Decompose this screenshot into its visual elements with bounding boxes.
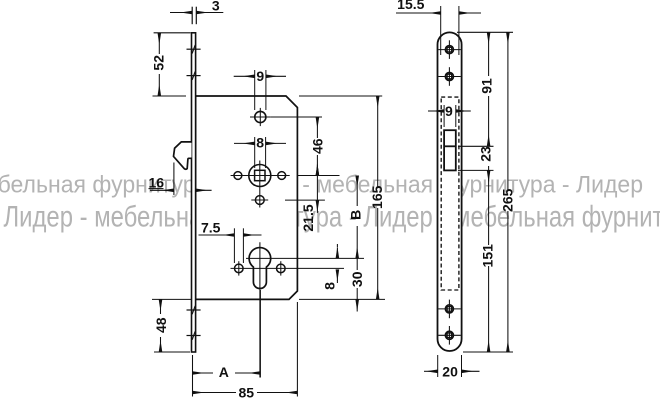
- ext line hole right: [271, 116, 322, 118]
- cyl satellite right crosshair: [280, 261, 282, 275]
- dim 265 line: [507, 33, 509, 190]
- latch hook: [174, 142, 192, 169]
- dim 48 line: [160, 300, 162, 314]
- dim 9 face ext lines: [443, 105, 445, 127]
- svg-text:265: 265: [499, 188, 515, 212]
- cyl satellite left: [235, 264, 244, 273]
- plate break mark 2: [187, 71, 201, 80]
- dim 52: extension lines: [154, 32, 191, 34]
- dim 3 arrows: [170, 12, 192, 14]
- svg-text:8: 8: [322, 282, 338, 290]
- top hole: [255, 111, 266, 122]
- top hole crosshair: [259, 108, 261, 126]
- svg-text:16: 16: [149, 174, 165, 190]
- hub satellite right: [278, 172, 286, 180]
- svg-text:B: B: [348, 210, 364, 220]
- dim 8 bottom line: [336, 244, 338, 247]
- svg-text:15.5: 15.5: [397, 0, 424, 12]
- plate break mark 1: [187, 45, 201, 54]
- svg-text:165: 165: [369, 185, 385, 209]
- dim 7.5 extension lines: [233, 228, 235, 263]
- dashed case rect: [441, 97, 459, 290]
- screw 1: [438, 40, 461, 59]
- dim 9 arrows: [234, 75, 255, 77]
- dim 9 face arrows: [428, 110, 444, 112]
- svg-text:7.5: 7.5: [201, 220, 221, 236]
- dim 20 ext lines: [437, 355, 439, 377]
- dim 8 arrows: [234, 142, 255, 144]
- right view ext lines: [457, 31, 513, 33]
- hub satellite bottom: [255, 196, 264, 205]
- dim 20 arrows: [424, 370, 438, 372]
- ext line case bottom: [152, 298, 191, 300]
- screw 2: [438, 67, 461, 86]
- hub crosshair vertical: [259, 161, 261, 208]
- dim 85 line: [193, 392, 236, 394]
- ext line bottom satellite right: [285, 199, 325, 201]
- cyl satellite right: [277, 264, 286, 273]
- faceplate front: [438, 32, 462, 351]
- latch divider: [444, 145, 456, 147]
- ext line hub right: [298, 175, 340, 177]
- dim 52 line: [158, 33, 160, 54]
- faceplate side view: [192, 33, 196, 352]
- dim 3: extension ticks: [191, 7, 193, 25]
- svg-text:9: 9: [445, 103, 453, 119]
- ext line case top right: [299, 95, 382, 97]
- svg-text:48: 48: [153, 317, 169, 333]
- svg-text:A: A: [219, 364, 229, 380]
- svg-text:151: 151: [480, 244, 496, 268]
- dim 15.5 ext lines: [440, 6, 442, 55]
- svg-text:8: 8: [256, 135, 264, 151]
- dim 8 top: extension lines: [254, 137, 256, 168]
- dim 15.5 arrows: [396, 12, 441, 14]
- cyl satellite left crosshair: [238, 261, 240, 275]
- dim 21.5 line: [316, 176, 318, 200]
- dim 30 line: [356, 258, 358, 270]
- dim B line: [356, 176, 358, 206]
- svg-text:85: 85: [239, 385, 255, 400]
- screw 4: [438, 326, 461, 345]
- plate break mark 4: [187, 331, 201, 340]
- svg-text:30: 30: [349, 271, 365, 287]
- screw 3: [438, 300, 461, 319]
- svg-text:52: 52: [151, 55, 167, 71]
- dim 9 top: extension lines: [254, 70, 256, 110]
- dim 16: hook extension: [173, 163, 175, 196]
- dim 165 line: [377, 96, 379, 187]
- hub satellite left: [234, 172, 242, 180]
- cylinder center line vertical: [259, 242, 261, 377]
- svg-text:21.5: 21.5: [300, 204, 316, 231]
- dim 151 line: [488, 170, 490, 245]
- spindle hub circle: [249, 165, 271, 187]
- cylinder center line horizontal: [246, 257, 364, 259]
- hub crosshair horizontal: [231, 175, 290, 177]
- dim 16 arrows: [150, 189, 174, 191]
- svg-text:3: 3: [212, 0, 220, 14]
- spindle square: [255, 170, 265, 180]
- euro cylinder profile: [249, 248, 271, 289]
- svg-text:Лидер - мебельная фурнитура -: Лидер - мебельная фурнитура - Лидер - ме…: [4, 201, 660, 234]
- svg-text:23: 23: [478, 146, 494, 162]
- latch opening: [444, 130, 456, 170]
- svg-text:20: 20: [442, 364, 458, 380]
- dim 23 line: [488, 166, 490, 170]
- dim 7.5 underline and arrows: [199, 234, 235, 236]
- ext line plate bottom left: [154, 351, 190, 353]
- dim 91 line: [488, 33, 490, 76]
- dim 16 underline: [149, 188, 164, 190]
- lock case body: [196, 96, 298, 299]
- cylinder satellites line horizontal: [231, 267, 345, 269]
- ext lines bottom dims: [192, 355, 194, 397]
- svg-text:46: 46: [309, 138, 325, 154]
- svg-text:9: 9: [256, 68, 264, 84]
- dim A line: [193, 372, 213, 374]
- dim 46 line: [316, 117, 318, 138]
- svg-text:91: 91: [478, 78, 494, 94]
- plate break mark 3: [187, 306, 201, 315]
- bottom satellite crosshair: [251, 199, 268, 201]
